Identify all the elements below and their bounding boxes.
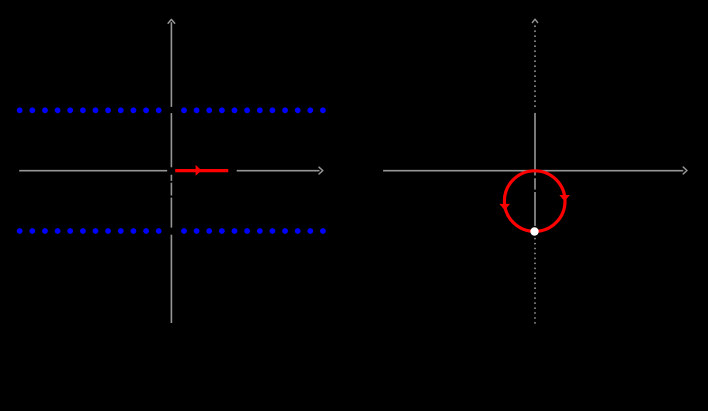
left plot upper blue dotted line Im(z)=+pi (17, 107, 326, 113)
left plot real axis arrowhead (right chevron) (319, 167, 323, 174)
right plot real axis (horizontal, gray) (383, 170, 683, 172)
left plot lower blue dotted line Im(z)=-pi (17, 228, 326, 234)
left plot red segment arrowhead (filled triangle pointing right) (196, 165, 202, 176)
right plot red circle (image of the real line, tangent to axis at origin) (504, 171, 565, 232)
right plot excluded point (white dot at bottom of circle) (530, 227, 538, 235)
left plot imaginary axis (vertical, gray, with gaps at marked points) (170, 22, 172, 323)
right plot red circle right arrowhead (pointing down at 3 o'clock) (559, 195, 570, 201)
right plot imaginary axis lower dotted part (534, 238, 536, 324)
right plot red circle left arrowhead (pointing down at 9 o'clock) (499, 204, 510, 210)
left plot real axis (horizontal, gray, gap at origin dot and around red segment) (19, 170, 319, 172)
left plot imaginary axis arrowhead (top chevron) (168, 19, 175, 23)
right plot imaginary axis solid middle part (with two small gaps) (534, 113, 536, 226)
right plot imaginary axis upper dotted part (534, 25, 536, 107)
right plot real axis arrowhead (right chevron) (683, 167, 687, 174)
right plot imaginary axis arrowhead (top chevron) (532, 19, 537, 22)
left plot red segment on positive real axis (175, 169, 228, 172)
